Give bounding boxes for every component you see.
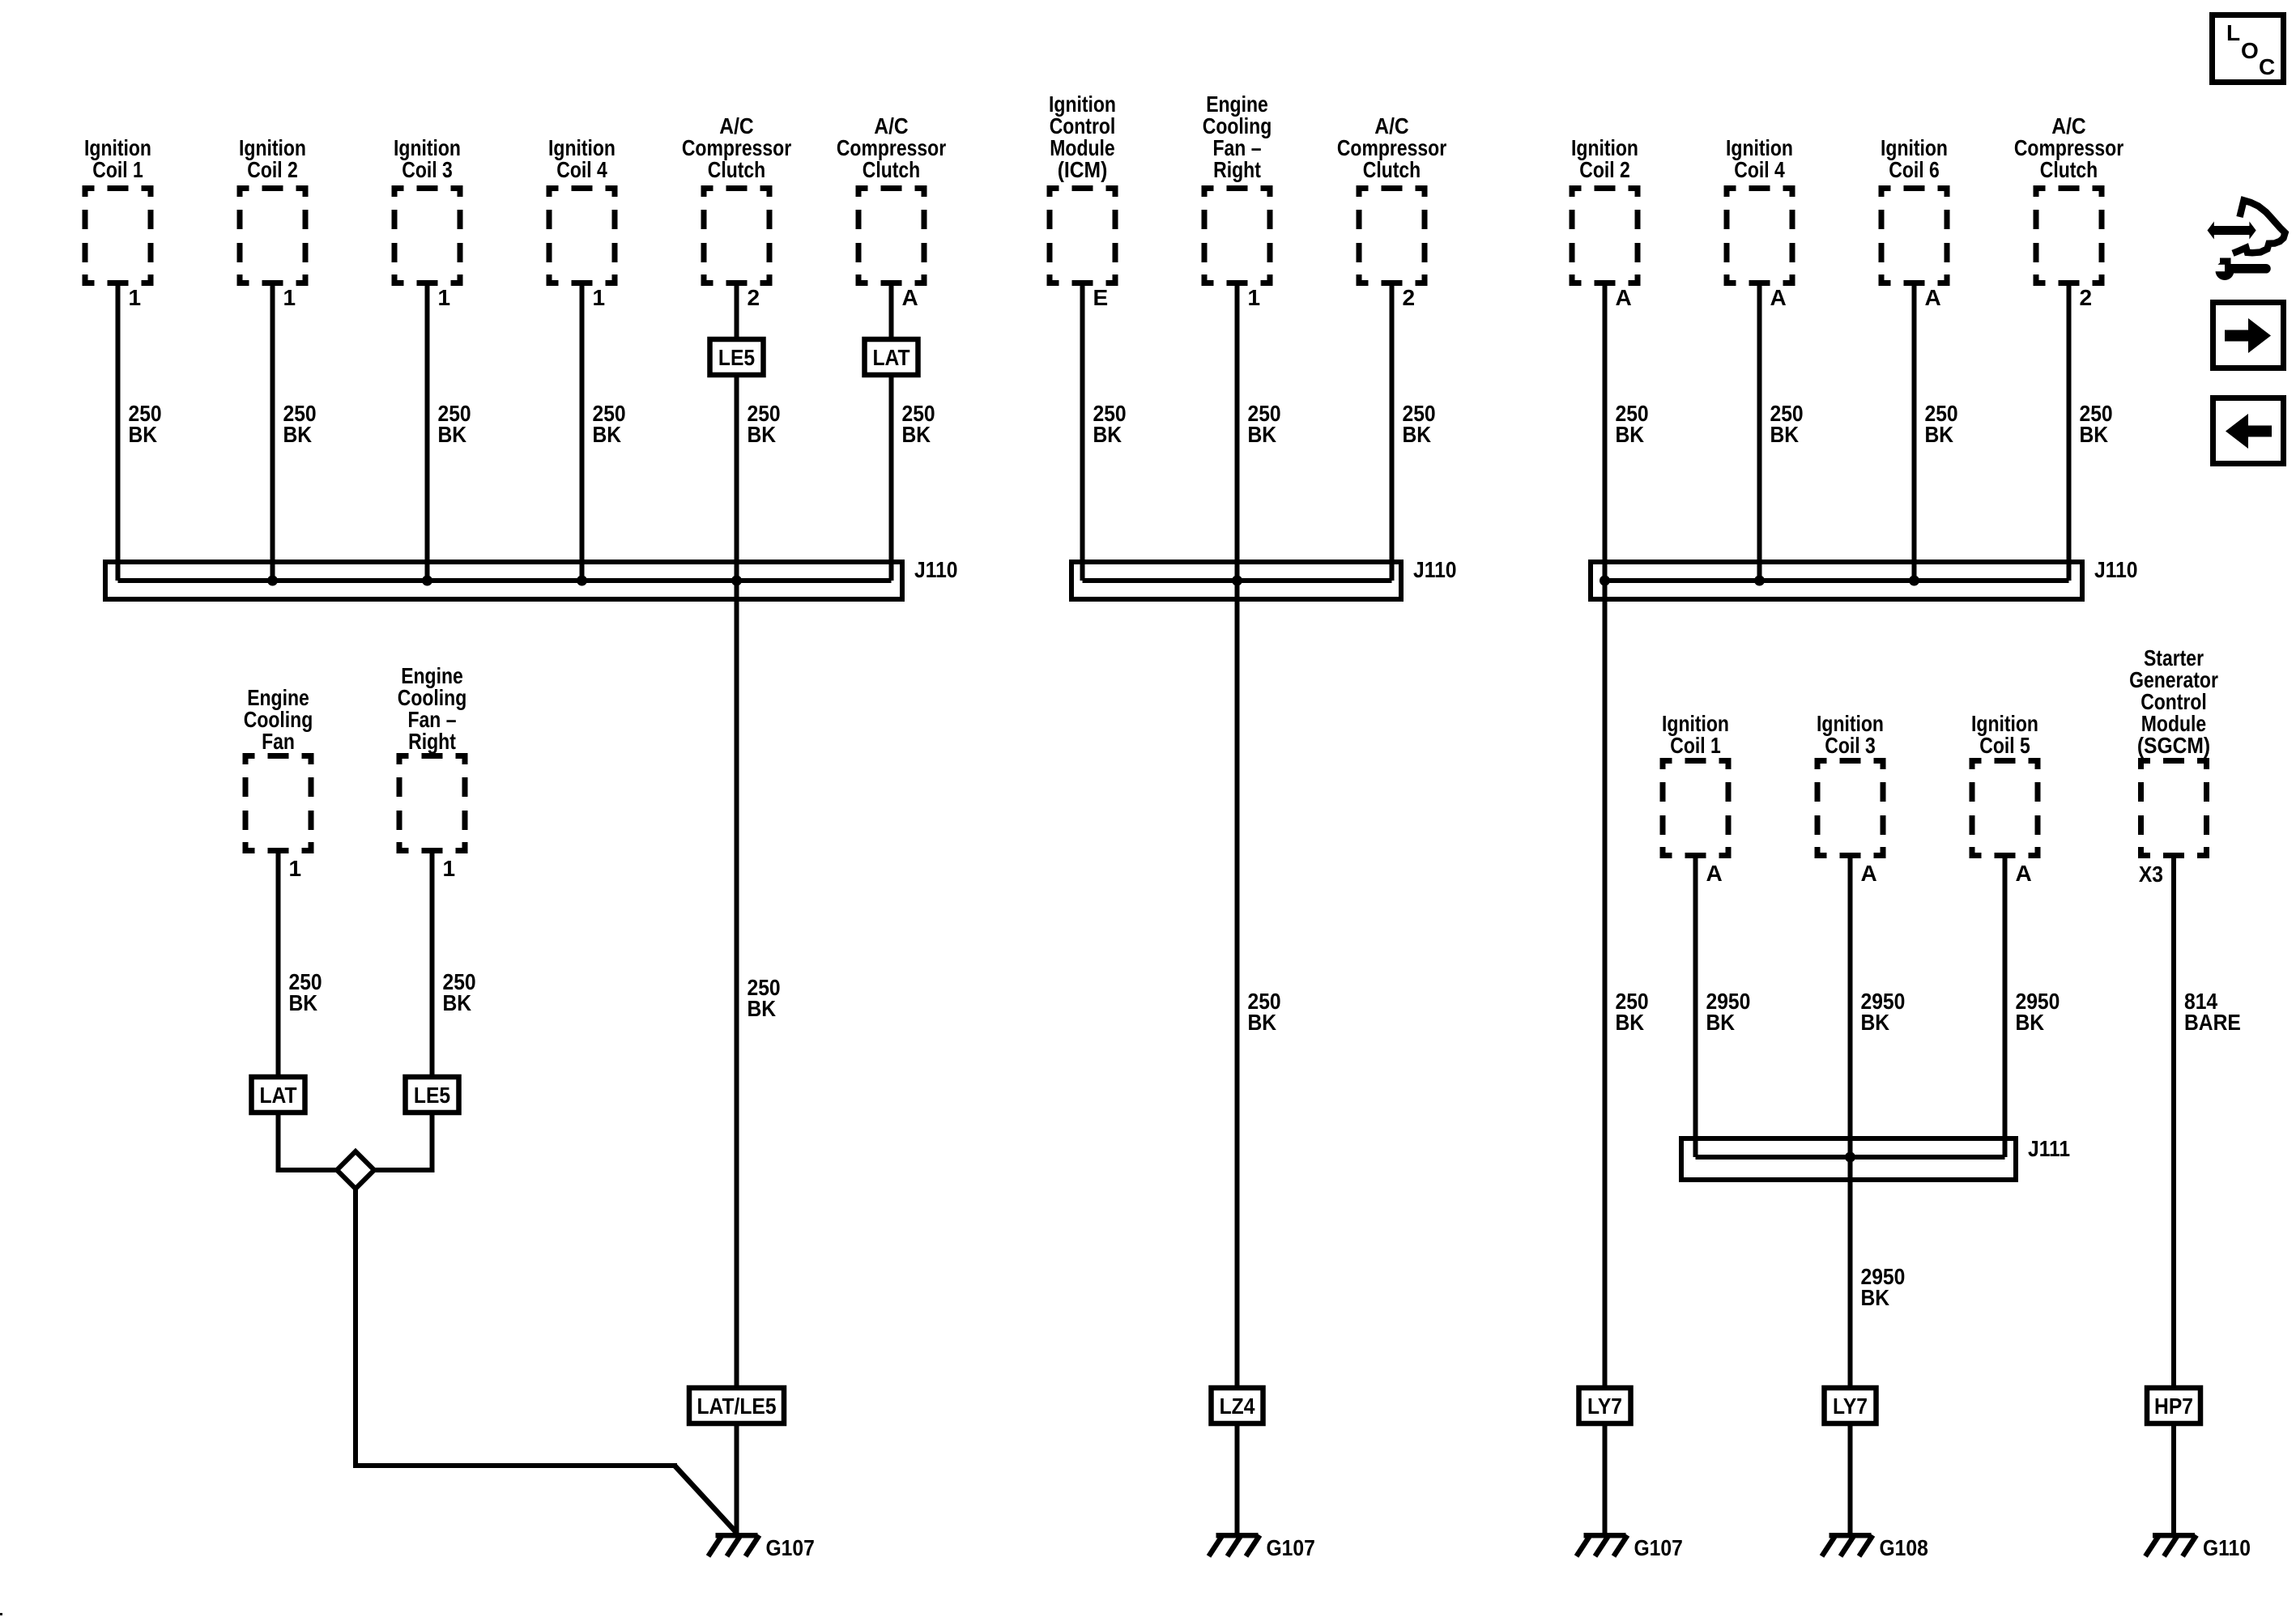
svg-text:BK: BK xyxy=(748,422,777,447)
svg-text:A: A xyxy=(1925,285,1941,310)
svg-text:BK: BK xyxy=(1861,1010,1890,1035)
svg-text:A: A xyxy=(2016,861,2032,886)
svg-text:J111: J111 xyxy=(2028,1136,2070,1161)
svg-text:1: 1 xyxy=(289,856,302,881)
svg-text:BK: BK xyxy=(1248,1010,1277,1035)
svg-text:LAT/LE5: LAT/LE5 xyxy=(696,1394,776,1419)
svg-text:Coil 2: Coil 2 xyxy=(247,157,298,182)
svg-text:LAT: LAT xyxy=(259,1083,296,1108)
svg-text:Coil 4: Coil 4 xyxy=(1734,157,1785,182)
svg-text:G110: G110 xyxy=(2203,1535,2251,1560)
svg-text:1: 1 xyxy=(283,285,296,310)
svg-text:BK: BK xyxy=(283,422,313,447)
svg-text:G108: G108 xyxy=(1880,1535,1928,1560)
svg-text:O: O xyxy=(2241,38,2259,63)
svg-text:BK: BK xyxy=(902,422,931,447)
svg-text:E: E xyxy=(1093,285,1109,310)
svg-text:L: L xyxy=(2226,20,2240,45)
svg-text:Clutch: Clutch xyxy=(1363,157,1421,182)
svg-text:1: 1 xyxy=(438,285,451,310)
svg-text:Clutch: Clutch xyxy=(863,157,920,182)
svg-text:BK: BK xyxy=(748,996,777,1021)
svg-text:2: 2 xyxy=(748,285,760,310)
svg-text:Coil 4: Coil 4 xyxy=(556,157,607,182)
svg-text:LE5: LE5 xyxy=(414,1083,450,1108)
svg-text:BK: BK xyxy=(129,422,158,447)
svg-text:BK: BK xyxy=(593,422,622,447)
svg-text:G107: G107 xyxy=(1267,1535,1315,1560)
svg-text:1: 1 xyxy=(1248,285,1261,310)
svg-text:1: 1 xyxy=(593,285,606,310)
svg-text:BK: BK xyxy=(1093,422,1122,447)
svg-text:J110: J110 xyxy=(914,557,958,582)
svg-text:G107: G107 xyxy=(1634,1535,1683,1560)
svg-text:BK: BK xyxy=(1616,422,1645,447)
svg-text:Clutch: Clutch xyxy=(708,157,765,182)
svg-text:BARE: BARE xyxy=(2184,1010,2241,1035)
svg-text:BK: BK xyxy=(443,990,472,1015)
svg-text:Coil 1: Coil 1 xyxy=(1670,733,1721,758)
svg-text:LY7: LY7 xyxy=(1587,1394,1622,1419)
svg-text:Coil 6: Coil 6 xyxy=(1889,157,1940,182)
svg-text:Right: Right xyxy=(1213,157,1261,182)
svg-text:X3: X3 xyxy=(2139,862,2163,887)
svg-text:BK: BK xyxy=(2080,422,2109,447)
svg-text:Coil 3: Coil 3 xyxy=(1825,733,1876,758)
svg-text:HP7: HP7 xyxy=(2154,1394,2193,1419)
svg-text:BK: BK xyxy=(289,990,318,1015)
svg-text:BK: BK xyxy=(1770,422,1800,447)
svg-text:BK: BK xyxy=(1616,1010,1645,1035)
svg-text:A: A xyxy=(1861,861,1877,886)
svg-text:C: C xyxy=(2259,54,2275,79)
svg-text:BK: BK xyxy=(1248,422,1277,447)
svg-text:1: 1 xyxy=(129,285,142,310)
svg-text:BK: BK xyxy=(1403,422,1432,447)
svg-text:A: A xyxy=(1706,861,1723,886)
svg-text:LE5: LE5 xyxy=(718,345,755,370)
svg-text:Coil 3: Coil 3 xyxy=(402,157,453,182)
svg-text:BK: BK xyxy=(1861,1285,1890,1310)
svg-text:Coil 2: Coil 2 xyxy=(1579,157,1630,182)
svg-text:Right: Right xyxy=(408,729,456,754)
svg-text:(SGCM): (SGCM) xyxy=(2137,733,2210,758)
svg-text:A: A xyxy=(1770,285,1787,310)
svg-text:1: 1 xyxy=(443,856,456,881)
svg-text:2: 2 xyxy=(2080,285,2093,310)
svg-text:Coil 5: Coil 5 xyxy=(1979,733,2030,758)
svg-text:Clutch: Clutch xyxy=(2040,157,2098,182)
svg-text:BK: BK xyxy=(1925,422,1954,447)
svg-text:LY7: LY7 xyxy=(1833,1394,1868,1419)
svg-text:A: A xyxy=(902,285,918,310)
svg-text:J110: J110 xyxy=(1413,557,1457,582)
svg-text:Fan: Fan xyxy=(262,729,295,754)
svg-text:BK: BK xyxy=(438,422,467,447)
svg-text:Coil 1: Coil 1 xyxy=(92,157,143,182)
svg-text:J110: J110 xyxy=(2094,557,2138,582)
svg-text:(ICM): (ICM) xyxy=(1058,157,1108,182)
svg-text:BK: BK xyxy=(2016,1010,2045,1035)
svg-text:LAT: LAT xyxy=(872,345,909,370)
svg-text:A: A xyxy=(1616,285,1632,310)
svg-text:G107: G107 xyxy=(766,1535,815,1560)
svg-text:LZ4: LZ4 xyxy=(1220,1394,1255,1419)
svg-text:2: 2 xyxy=(1403,285,1416,310)
svg-text:BK: BK xyxy=(1706,1010,1736,1035)
